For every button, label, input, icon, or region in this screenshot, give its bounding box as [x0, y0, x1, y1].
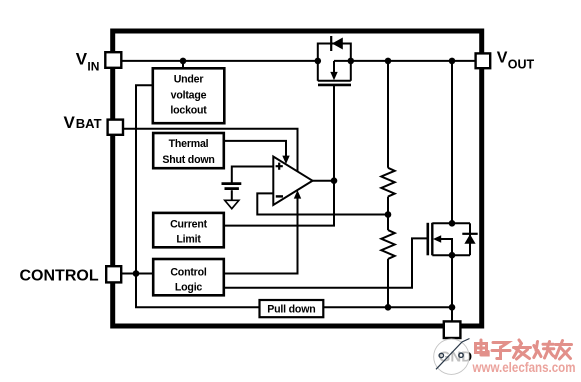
- Pull down block: [260, 300, 324, 317]
- wire: Control Logic top output up to op-amp bottom: [224, 198, 298, 273]
- NMOS Q2 gate bar: [426, 223, 429, 256]
- watermark logo swoosh: [436, 339, 470, 370]
- junction dot NMOS drain: [449, 220, 456, 227]
- PMOS Q1 drain stub: [350, 61, 352, 81]
- resistor R1 upper divider zigzag: [381, 168, 394, 197]
- junction dot rail-PMOS right: [348, 58, 355, 65]
- arrowhead into op-amp top from thermal: [282, 156, 289, 165]
- svg-text:Thermal: Thermal: [169, 138, 209, 150]
- wire: VIN to PMOS source rail segment: [121, 60, 317, 62]
- junction dot control node: [133, 270, 140, 277]
- svg-text:V: V: [497, 50, 508, 67]
- op-amp U1 error amplifier triangle: [273, 157, 312, 206]
- svg-text:Under: Under: [174, 73, 204, 85]
- wire: PMOS bulk stub to VOUT rail segment: [334, 60, 476, 62]
- svg-text:CONTROL: CONTROL: [20, 267, 99, 284]
- reference battery plate long: [222, 182, 242, 185]
- reference battery plate short: [225, 187, 239, 190]
- Thermal Shut down block: [153, 133, 224, 168]
- svg-text:IN: IN: [87, 60, 99, 74]
- PMOS Q1 source stub: [317, 61, 319, 81]
- wire: NMOS source down to GND pin: [451, 255, 453, 321]
- svg-text:OUT: OUT: [508, 58, 535, 72]
- PMOS Q1 gate bar: [318, 84, 351, 87]
- NMOS Q2 drain terminal: [432, 222, 470, 224]
- svg-text:www.elecfans.com: www.elecfans.com: [472, 360, 576, 375]
- junction dot NMOS source: [449, 252, 456, 259]
- wire: control node down to Pull down box: [136, 274, 260, 308]
- body diode D1 cathode bar: [330, 36, 332, 51]
- Control Logic block: [153, 259, 224, 295]
- PMOS Q1 bulk arrowhead: [330, 72, 337, 80]
- wire: R2 down to pull down rail: [387, 259, 389, 307]
- IC outer boundary box: [113, 31, 482, 326]
- svg-text:Limit: Limit: [176, 233, 201, 245]
- pin GND square: [444, 321, 461, 338]
- junction dot pulldown-GND: [449, 304, 456, 311]
- junction dot rail-PMOS left: [315, 58, 322, 65]
- arrowhead into op-amp bottom from control logic: [294, 190, 301, 199]
- junction dot rail-UVLO: [180, 58, 187, 65]
- pin CONTROL square: [106, 266, 121, 282]
- pin VOUT square: [476, 53, 491, 68]
- Current Limit block: [153, 213, 224, 247]
- junction dot op-amp output: [331, 177, 338, 184]
- svg-text:Shut down: Shut down: [162, 154, 214, 166]
- wire: plus input to reference: [232, 167, 273, 184]
- wire: battery to ground symbol: [231, 190, 233, 200]
- pin VBAT square: [108, 120, 123, 135]
- junction dot divider tap: [385, 211, 392, 218]
- PMOS Q1 channel line: [318, 80, 351, 82]
- wire: CONTROL pin to Control Logic: [122, 273, 154, 275]
- junction dot pulldown-divider: [385, 304, 392, 311]
- op-amp minus input marking: [276, 195, 283, 197]
- wire: UVLO left to control node: [136, 85, 153, 273]
- wire: divider top from rail: [387, 61, 389, 168]
- PMOS pass transistor Q1 upper loop: [318, 44, 351, 61]
- resistor R2 lower divider zigzag: [381, 230, 394, 259]
- NMOS Q2 source terminal: [432, 254, 470, 256]
- wire: NMOS drain from rail: [451, 61, 453, 223]
- ground symbol hollow triangle: [225, 200, 239, 208]
- svg-text:Current: Current: [170, 218, 208, 230]
- svg-text:voltage: voltage: [171, 90, 207, 102]
- wire: R1 to tap node: [387, 197, 389, 215]
- svg-text:V: V: [64, 113, 76, 132]
- NMOS Q2 body right link: [469, 223, 471, 255]
- junction dot rail-divider: [385, 58, 392, 65]
- wire: Control Logic bottom output to NMOS gate: [224, 238, 428, 287]
- body diode D1 triangle: [332, 38, 343, 50]
- svg-text:Logic: Logic: [175, 282, 203, 294]
- svg-text:Control: Control: [170, 267, 207, 279]
- PMOS Q1 bulk arrow shaft: [333, 61, 335, 73]
- NMOS Q2 bulk arrow shaft: [441, 239, 452, 255]
- NMOS Q2 channel bar: [431, 223, 433, 256]
- junction dot rail-NMOS: [449, 58, 456, 65]
- svg-text:BAT: BAT: [76, 116, 102, 131]
- body diode D2 triangle: [464, 234, 475, 244]
- watermark logo circle: [434, 339, 469, 374]
- wire: UVLO drop from rail: [182, 61, 184, 68]
- wire: op-amp minus feedback to divider tap: [257, 193, 388, 214]
- wire: op-amp output to gate node: [313, 180, 335, 182]
- svg-text:Pull down: Pull down: [267, 303, 315, 315]
- svg-text:lockout: lockout: [170, 104, 207, 116]
- op-amp plus input marking: [276, 163, 283, 170]
- NMOS Q2 bulk arrowhead: [433, 235, 441, 242]
- wire: pull down rail right section: [323, 306, 452, 308]
- Under voltage lockout block: [153, 68, 225, 123]
- wire: tap to R2: [387, 215, 389, 231]
- watermark chinese characters: [476, 340, 572, 359]
- pin VIN square: [105, 52, 121, 68]
- wire: Thermal Shutdown output to op-amp: [224, 141, 286, 157]
- wire: VBAT to op-amp top: [121, 129, 297, 172]
- body diode D2 cathode bar: [462, 233, 477, 235]
- svg-text:V: V: [76, 50, 88, 69]
- wire: gate net vertical PMOS gate to Current Limit: [224, 86, 334, 226]
